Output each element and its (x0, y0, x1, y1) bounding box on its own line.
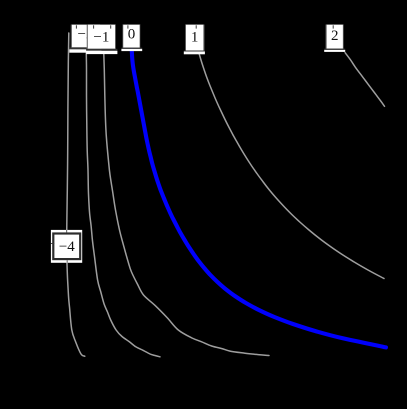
contour curve level -2 (86, 53, 160, 357)
contour curve level 1 (199, 54, 384, 278)
contour curve level -1 (104, 54, 269, 356)
svg-text:1: 1 (191, 30, 199, 46)
contour curve level 0 (blue) (132, 51, 386, 348)
label box "2" (324, 25, 345, 52)
curve -4 stub through bottom margin of "-4" label (67, 260, 68, 263)
label box "1" (184, 25, 205, 55)
label box "-4" (51, 230, 82, 263)
left frame tick on "-4" label margin (51, 242, 55, 245)
contour curve level 2 (345, 53, 384, 107)
contour curve level -4 (67, 33, 85, 356)
label box "0" (121, 25, 142, 52)
label box "-2" (partially hidden behind "-1" box) (69, 25, 101, 53)
label box "-1" (86, 25, 117, 54)
svg-text:−1: −1 (93, 29, 109, 45)
top frame tick marks (visible only over label boxes) (76, 25, 334, 28)
curve -4 stub through top margin of "-4" label (66, 230, 67, 233)
svg-text:2: 2 (331, 28, 339, 44)
svg-text:−4: −4 (59, 239, 75, 255)
svg-text:0: 0 (128, 26, 136, 42)
